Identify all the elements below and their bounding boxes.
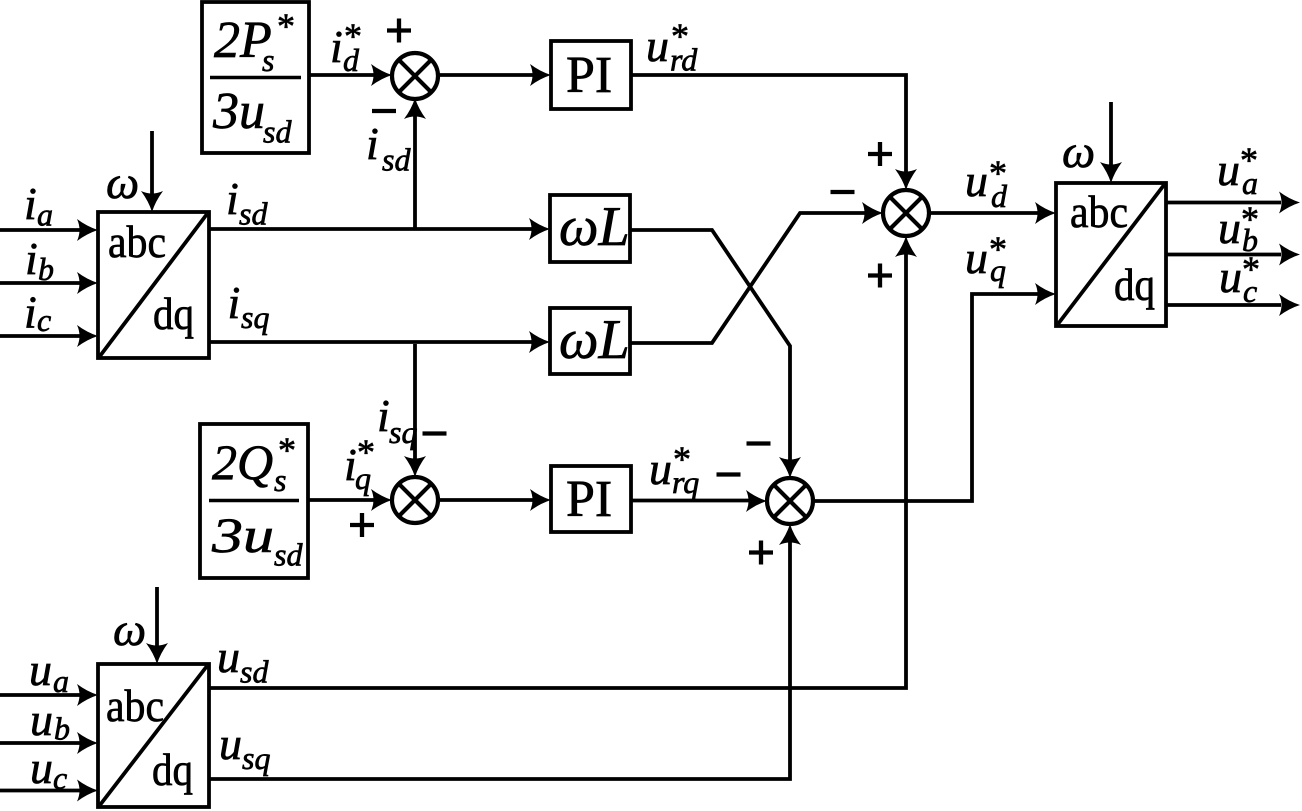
svg-text:u: u [1219, 251, 1242, 302]
svg-text:PI: PI [566, 47, 612, 104]
svg-text:b: b [54, 711, 70, 747]
svg-text:c: c [53, 760, 67, 796]
svg-text:c: c [1243, 273, 1257, 309]
svg-text:*: * [277, 6, 295, 46]
svg-text:u: u [219, 718, 242, 769]
svg-text:ωL: ωL [559, 309, 630, 371]
svg-text:3u: 3u [212, 83, 265, 140]
svg-text:b: b [38, 251, 54, 287]
svg-text:abc: abc [106, 680, 164, 731]
svg-text:ω: ω [106, 157, 139, 209]
svg-text:q: q [990, 252, 1006, 288]
svg-text:abc: abc [108, 216, 166, 267]
svg-text:ω: ω [113, 604, 146, 656]
svg-text:i: i [366, 118, 379, 169]
svg-text:sd: sd [239, 196, 268, 232]
svg-text:PI: PI [566, 471, 612, 528]
svg-text:2Q: 2Q [212, 434, 273, 490]
svg-text:u: u [217, 631, 240, 682]
svg-text:i: i [25, 233, 38, 284]
svg-text:c: c [37, 302, 51, 338]
svg-text:a: a [1242, 165, 1258, 201]
svg-text:u: u [965, 232, 988, 283]
svg-text:u: u [30, 742, 53, 793]
svg-text:i: i [24, 178, 37, 229]
svg-text:u: u [1217, 144, 1240, 195]
svg-text:i: i [377, 390, 390, 441]
svg-text:i: i [330, 21, 343, 72]
svg-text:rq: rq [672, 464, 699, 500]
svg-text:s: s [274, 462, 286, 498]
svg-text:sq: sq [241, 299, 269, 335]
svg-text:sd: sd [382, 142, 411, 178]
svg-text:u: u [30, 694, 53, 745]
svg-text:i: i [226, 173, 239, 224]
svg-text:ωL: ωL [559, 196, 630, 258]
svg-text:i: i [228, 277, 241, 328]
svg-text:q: q [355, 460, 371, 496]
svg-text:sq: sq [389, 414, 417, 450]
svg-text:dq: dq [1114, 259, 1155, 310]
svg-text:rd: rd [670, 42, 698, 78]
svg-text:3u: 3u [211, 507, 274, 563]
svg-text:abc: abc [1070, 186, 1128, 237]
svg-text:sd: sd [263, 114, 292, 150]
svg-text:u: u [1218, 202, 1241, 253]
svg-text:u: u [29, 644, 52, 695]
svg-text:a: a [53, 663, 69, 699]
svg-text:dq: dq [153, 288, 194, 339]
svg-text:u: u [649, 443, 672, 494]
svg-text:sd: sd [274, 537, 303, 573]
svg-text:s: s [262, 42, 274, 78]
svg-text:d: d [343, 42, 360, 78]
svg-text:i: i [24, 287, 37, 338]
svg-text:dq: dq [152, 744, 193, 795]
svg-text:u: u [965, 155, 988, 206]
svg-text:ω: ω [1062, 126, 1095, 178]
svg-text:a: a [37, 197, 53, 233]
svg-text:d: d [991, 178, 1008, 214]
svg-text:u: u [646, 20, 669, 71]
svg-text:sd: sd [240, 654, 269, 690]
svg-text:sq: sq [242, 740, 270, 776]
